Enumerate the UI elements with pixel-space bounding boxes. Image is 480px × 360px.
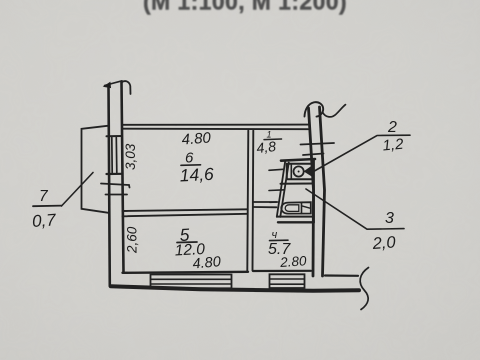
svg-text:(М 1:100, М 1:200): (М 1:100, М 1:200) — [143, 0, 347, 15]
svg-text:2,60: 2,60 — [125, 226, 140, 254]
svg-text:3,03: 3,03 — [123, 143, 138, 170]
svg-text:4,8: 4,8 — [256, 138, 277, 156]
svg-text:2.80: 2.80 — [279, 253, 308, 270]
svg-text:4.80: 4.80 — [181, 129, 212, 148]
svg-text:14,6: 14,6 — [179, 164, 214, 186]
svg-text:2,0: 2,0 — [371, 233, 397, 253]
svg-text:4.80: 4.80 — [192, 254, 222, 272]
svg-text:0,7: 0,7 — [31, 210, 56, 231]
svg-text:3: 3 — [385, 210, 394, 227]
svg-text:ч: ч — [272, 229, 278, 241]
svg-text:7: 7 — [39, 188, 49, 205]
svg-text:2: 2 — [387, 119, 397, 136]
svg-text:1,2: 1,2 — [382, 136, 405, 155]
